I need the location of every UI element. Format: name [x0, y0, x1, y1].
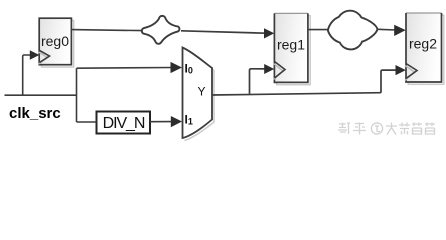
register reg2 [406, 13, 442, 82]
wire into DIV_N [77, 121, 97, 123]
arrowhead into reg1 D [264, 28, 274, 38]
svg-text:DIV_N: DIV_N [103, 115, 145, 132]
svg-text:Y: Y [197, 85, 205, 99]
reg0 clock chevron [40, 51, 50, 63]
reg1 clock chevron [275, 62, 286, 79]
register reg1 shadow [277, 16, 311, 85]
svg-text:clk_src: clk_src [9, 105, 61, 122]
combinational cloud X2 (between reg1 and reg2) [328, 11, 378, 50]
register reg0 [39, 18, 71, 64]
wire riser to reg1 clock [250, 69, 267, 94]
wire vertical bus at x=76.5 [76, 68, 78, 122]
reg1 clock chevron ghost [274, 64, 284, 80]
reg2 clock chevron [406, 64, 417, 79]
divider DIV_N box [97, 112, 151, 134]
register reg0 shadow [42, 21, 74, 68]
wire reg1 Q to cloud X2 [308, 29, 329, 31]
svg-text:reg0: reg0 [41, 33, 69, 49]
combinational cloud X1 (between reg0 and reg1) [142, 16, 180, 44]
wire reg0 Q to cloud X1 [71, 30, 143, 31]
arrowhead into reg0 clock [30, 50, 40, 60]
wire cloud X2 to reg2 D [378, 28, 397, 31]
mux U1 shadow [185, 50, 215, 141]
wire DIV_N to mux I1 [150, 121, 173, 123]
arrowhead into reg2 D [394, 25, 406, 36]
wire mux Y output horizontal [212, 93, 381, 95]
mux U1 body [183, 48, 213, 139]
wire riser to reg0 clock [23, 55, 31, 95]
wire riser to reg2 clock [381, 70, 397, 93]
arrowhead into reg1 clock [264, 64, 274, 74]
register reg1 [274, 13, 308, 82]
wire cloud X1 to reg1 D [181, 31, 266, 33]
arrowhead into reg2 clock [396, 65, 406, 75]
arrowhead into mux I1 [171, 116, 182, 127]
wire to mux I0 [77, 67, 174, 70]
watermark 知乎 @大蒜酱酱 (drawn as faint glyph shapes) [338, 123, 435, 135]
reg0 clock chevron ghost [39, 52, 48, 64]
svg-text:reg2: reg2 [409, 36, 437, 52]
reg2 clock chevron ghost [405, 66, 415, 81]
register reg2 shadow [408, 15, 444, 84]
arrowhead into mux I0 [171, 62, 183, 73]
wire clk_src horizontal [5, 94, 77, 96]
svg-text:reg1: reg1 [277, 37, 305, 53]
